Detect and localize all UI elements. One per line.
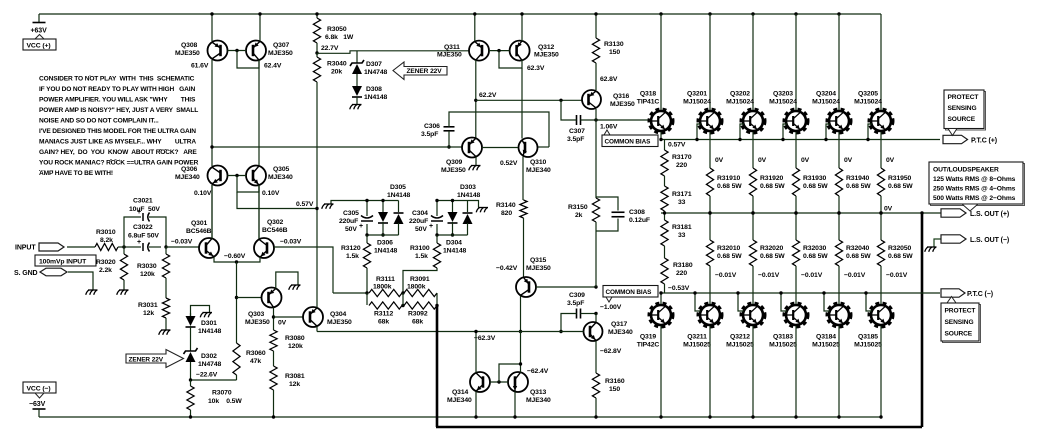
- svg-text:−0.03V: −0.03V: [280, 239, 302, 246]
- svg-text:−0.01V: −0.01V: [801, 272, 823, 279]
- svg-text:R3050: R3050: [327, 26, 347, 33]
- svg-text:Q308: Q308: [181, 42, 198, 49]
- wire Q302 base to feedback node: [274, 247, 333, 293]
- svg-text:−62.8V: −62.8V: [600, 348, 622, 355]
- wire Q303 emitter to ground: [276, 272, 298, 289]
- wire R3081 to rail: [273, 390, 275, 417]
- resistor R3010: [95, 243, 118, 250]
- wire R3140 to Q315: [523, 218, 525, 277]
- svg-text:Q3204: Q3204: [816, 91, 836, 98]
- ground Q309: [477, 166, 480, 171]
- svg-text:R3130: R3130: [604, 41, 624, 48]
- port P.T.C (+): [943, 135, 968, 143]
- transistor Q308: [208, 41, 228, 61]
- wire +63V top rail: [39, 13, 881, 15]
- svg-text:R3181: R3181: [672, 224, 692, 231]
- svg-text:SENSING: SENSING: [948, 105, 977, 112]
- wire collector Q319 to -63V rail: [660, 326, 662, 417]
- svg-text:R3040: R3040: [327, 61, 347, 68]
- capacitor C307: [576, 115, 578, 125]
- svg-text:1N4148: 1N4148: [374, 248, 398, 255]
- svg-text:Q314: Q314: [452, 389, 469, 396]
- svg-text:R3092: R3092: [408, 311, 428, 318]
- svg-text:MJE350: MJE350: [610, 101, 635, 108]
- svg-text:+: +: [429, 223, 433, 230]
- svg-text:Q3202: Q3202: [730, 91, 750, 98]
- wire Q305 diode link: [237, 176, 259, 193]
- svg-text:Q3185: Q3185: [858, 334, 878, 341]
- svg-text:D304: D304: [446, 240, 462, 247]
- wire Q306-Q305 bases: [228, 175, 247, 177]
- svg-text:Q3205: Q3205: [858, 91, 878, 98]
- wire node B to Q301 base: [166, 246, 199, 248]
- power flag VCC (-): [23, 382, 56, 393]
- wire PTC+ base rail: [661, 139, 940, 141]
- resistor R3111: [369, 289, 402, 296]
- wire R31930 to bus: [795, 196, 797, 213]
- resistor R3050: [316, 14, 318, 18]
- svg-text:−62.3V: −62.3V: [474, 335, 496, 342]
- svg-text:S. GND: S. GND: [14, 270, 38, 277]
- svg-text:MJE350: MJE350: [526, 265, 551, 272]
- svg-text:1800k: 1800k: [373, 284, 392, 291]
- resistor R3060: [233, 343, 240, 375]
- svg-text:Q319: Q319: [640, 334, 657, 341]
- svg-text:R3081: R3081: [285, 373, 305, 380]
- transistor Q311: [469, 41, 489, 61]
- svg-text:1N4148: 1N4148: [198, 328, 222, 335]
- wire collector Q3204 to +63V rail: [837, 12, 840, 15]
- wire output bus thick: [436, 306, 439, 428]
- svg-text:R31950: R31950: [888, 175, 912, 182]
- transistor Q3205: [870, 110, 893, 133]
- svg-text:Q305: Q305: [273, 166, 290, 173]
- wire Q314 diode link: [499, 364, 521, 382]
- svg-text:P.T.C (−): P.T.C (−): [967, 291, 993, 298]
- resistor R32030: [792, 240, 799, 266]
- transistor Q306: [208, 166, 228, 186]
- capacitor C3021: [124, 217, 141, 247]
- wire Q303 collector: [273, 308, 275, 331]
- wire R32020 to Q3212: [752, 266, 754, 304]
- wire input to R3010: [67, 246, 95, 248]
- svg-text:0.12uF: 0.12uF: [629, 217, 650, 224]
- diode D308: [352, 86, 362, 96]
- svg-text:120k: 120k: [288, 343, 303, 350]
- capacitor C308: [596, 197, 618, 211]
- wire emitter resistor R32040 from bus: [838, 213, 840, 240]
- wire R3120 to feedback node: [366, 268, 368, 293]
- transistor Q3202: [742, 110, 765, 133]
- svg-text:Q313: Q313: [530, 389, 547, 396]
- svg-text:8.2k: 8.2k: [100, 237, 113, 244]
- resistor R3081: [270, 366, 277, 390]
- port L.S. OUT (+): [941, 209, 966, 217]
- svg-text:VCC (+): VCC (+): [27, 43, 51, 50]
- svg-text:D306: D306: [377, 240, 393, 247]
- wire -63V bottom rail: [39, 416, 881, 418]
- transistor Q3183: [785, 304, 808, 327]
- resistor R3140: [520, 200, 527, 218]
- label PROTECT SENSING SOURCE upper: [946, 92, 986, 131]
- arrow label ZENER 22V lower: [126, 350, 184, 368]
- wire Q318 emitter stub: [660, 132, 662, 140]
- arrow label ZENER 22V upper: [393, 62, 447, 80]
- resistor R31930: [792, 168, 799, 196]
- svg-text:0.68 5W: 0.68 5W: [717, 253, 742, 260]
- port S. GND: [40, 268, 67, 276]
- wire R3080 to R3081: [273, 351, 275, 366]
- wire Q307 emitter to rail: [259, 14, 261, 41]
- svg-text:MJE350: MJE350: [268, 50, 293, 57]
- transistor Q312: [510, 41, 530, 61]
- capacitor C3022: [129, 246, 141, 248]
- wire Q313-Q314 bases: [490, 381, 508, 383]
- svg-text:TIP42C: TIP42C: [637, 342, 660, 349]
- svg-text:POWER AMPLIFIER. YOU WILL ASK: POWER AMPLIFIER. YOU WILL ASK "WHY THIS: [39, 97, 196, 104]
- wire C307 left hook: [561, 100, 577, 120]
- svg-text:C3021: C3021: [133, 198, 153, 205]
- svg-text:0.68 5W: 0.68 5W: [760, 183, 785, 190]
- wire Q315 emitter down: [520, 296, 522, 332]
- svg-text:220: 220: [676, 162, 687, 169]
- svg-text:0.68 5W: 0.68 5W: [888, 183, 913, 190]
- svg-text:R3070: R3070: [212, 390, 232, 397]
- transistor Q315: [516, 277, 536, 297]
- transistor Q3184: [828, 304, 851, 327]
- svg-text:220uF: 220uF: [339, 218, 358, 225]
- wire collector Q318 to +63V rail: [659, 12, 662, 15]
- svg-text:0V: 0V: [715, 157, 724, 164]
- wire base stub Q3202: [740, 124, 744, 140]
- svg-text:−0.53V: −0.53V: [668, 285, 690, 292]
- svg-text:C306: C306: [424, 123, 440, 130]
- port P.T.C (-): [941, 289, 965, 297]
- transistor Q303: [262, 288, 282, 308]
- wire R31950 to bus: [880, 196, 882, 213]
- svg-text:MJE340: MJE340: [268, 174, 293, 181]
- node B junction: [164, 245, 167, 248]
- wire R32040 to Q3184: [838, 266, 840, 304]
- wire 62.2V node to Q316 base: [476, 99, 582, 101]
- svg-text:3.5pF: 3.5pF: [567, 136, 584, 143]
- svg-text:R31930: R31930: [803, 175, 827, 182]
- svg-text:IF YOU DO NOT READY TO PLAY WI: IF YOU DO NOT READY TO PLAY WITH HIGH GA…: [39, 86, 195, 93]
- svg-text:PROTECT: PROTECT: [945, 308, 976, 315]
- wire Q308 emitter to rail: [211, 14, 213, 41]
- ground R3031: [167, 330, 170, 335]
- wire base rail Q309/Q310: [212, 146, 462, 148]
- wire Q308-Q307 bases: [228, 50, 247, 52]
- svg-text:50V: 50V: [415, 226, 427, 233]
- wire emitter resistor R32010 from bus: [709, 213, 711, 240]
- svg-text:150: 150: [609, 386, 620, 393]
- ground D308: [358, 105, 361, 110]
- label OUT/LOUDSPEAKER box: [931, 164, 1025, 206]
- transistor Q3201: [699, 110, 722, 133]
- transistor Q305: [246, 166, 266, 186]
- capacitor C306: [444, 126, 455, 128]
- resistor R3160: [592, 373, 599, 398]
- svg-text:MJ15024: MJ15024: [769, 99, 797, 106]
- svg-text:100mVp INPUT: 100mVp INPUT: [39, 259, 87, 266]
- svg-text:R3030: R3030: [137, 263, 157, 270]
- svg-text:C308: C308: [629, 209, 645, 216]
- svg-text:PROTECT: PROTECT: [948, 94, 979, 101]
- svg-text:0V: 0V: [278, 320, 287, 327]
- svg-text:125 Watts RMS @ 8−Ohms: 125 Watts RMS @ 8−Ohms: [933, 176, 1016, 183]
- svg-text:R3100: R3100: [410, 245, 430, 252]
- resistor R3070: [190, 380, 192, 386]
- svg-text:C305: C305: [343, 210, 359, 217]
- wire C309 left hook: [561, 314, 577, 332]
- wire R3171 to bus: [664, 211, 666, 213]
- resistor R3130: [595, 14, 597, 38]
- wire LTP tail: [214, 257, 260, 262]
- svg-text:CONSIDER TO NOT PLAY WITH TH: CONSIDER TO NOT PLAY WITH THIS SCHEMATIC: [39, 76, 195, 83]
- wire collector Q3211 to -63V rail: [709, 326, 711, 417]
- svg-text:Q312: Q312: [538, 44, 555, 51]
- svg-text:+: +: [137, 239, 141, 246]
- wire emitter Q3203 down: [795, 132, 797, 168]
- svg-text:6.8k 1W: 6.8k 1W: [325, 34, 354, 41]
- svg-text:R3171: R3171: [672, 191, 692, 198]
- svg-text:1N4148: 1N4148: [443, 248, 467, 255]
- svg-text:0.68 5W: 0.68 5W: [846, 183, 871, 190]
- svg-text:61.6V: 61.6V: [191, 63, 209, 70]
- svg-text:R31920: R31920: [760, 175, 784, 182]
- svg-text:MJ15024: MJ15024: [812, 99, 840, 106]
- svg-text:MJE340: MJE340: [447, 397, 472, 404]
- svg-text:YOU ROCK MANIAC? ROCK ==ULTRA: YOU ROCK MANIAC? ROCK ==ULTRA GAIN POWER: [39, 160, 199, 167]
- svg-text:C304: C304: [412, 210, 428, 217]
- resistor R3030: [165, 247, 167, 254]
- wire Q304 collector to output line: [316, 327, 318, 332]
- ground C305 network: [330, 204, 333, 209]
- resistor R3020: [123, 247, 125, 254]
- svg-text:Q3183: Q3183: [773, 334, 793, 341]
- resistor R31940: [835, 168, 842, 196]
- wire Q311 collector down to Q309: [475, 60, 477, 138]
- wire base stub Q3205: [868, 124, 872, 140]
- svg-text:3.5pF: 3.5pF: [421, 131, 438, 138]
- svg-text:0.68 5W: 0.68 5W: [803, 253, 828, 260]
- svg-text:62.4V: 62.4V: [264, 63, 282, 70]
- wire collector Q3203 to +63V rail: [794, 12, 797, 15]
- svg-text:−0.03V: −0.03V: [171, 239, 193, 246]
- wire emitter resistor R32030 from bus: [795, 213, 797, 240]
- wire collector Q3202 to +63V rail: [751, 12, 754, 15]
- svg-text:0.10V: 0.10V: [262, 190, 280, 197]
- svg-text:D307: D307: [366, 61, 382, 68]
- zener diode D307: [350, 60, 364, 66]
- wire bias column to Q317: [595, 314, 597, 323]
- wire Q305 to Q302: [258, 185, 260, 239]
- wire Q311 emitter to rail: [474, 14, 476, 41]
- svg-text:Q310: Q310: [530, 159, 547, 166]
- svg-text:MJE350: MJE350: [327, 319, 352, 326]
- transistor Q3203: [785, 110, 808, 133]
- transistor Q3212: [742, 304, 765, 327]
- svg-text:0V: 0V: [758, 157, 767, 164]
- svg-text:MJ15024: MJ15024: [726, 99, 754, 106]
- svg-text:120k: 120k: [140, 271, 155, 278]
- svg-text:Q3203: Q3203: [773, 91, 793, 98]
- wire Q315 base to bias column: [536, 286, 596, 288]
- svg-text:−0.01V: −0.01V: [758, 272, 780, 279]
- port INPUT: [39, 243, 64, 251]
- svg-text:D303: D303: [460, 184, 476, 191]
- diode D303: [452, 201, 454, 213]
- wire S.GND to ground: [68, 272, 93, 290]
- svg-text:COMMON BIAS: COMMON BIAS: [606, 289, 653, 296]
- wire base stub Q3212 lower: [738, 293, 744, 311]
- wire R32030 to Q3183: [795, 266, 797, 304]
- wire base stub Q3203: [783, 124, 787, 140]
- svg-text:0.68 5W: 0.68 5W: [846, 253, 871, 260]
- resistor R3080: [270, 330, 277, 351]
- wire LS OUT+ bus: [661, 212, 941, 214]
- resistor R3170: [664, 140, 666, 151]
- svg-text:C309: C309: [569, 292, 585, 299]
- ground S.GND: [94, 290, 97, 295]
- wire C304 network bottom: [437, 234, 468, 236]
- svg-text:0V: 0V: [884, 206, 893, 213]
- svg-text:MJ15024: MJ15024: [854, 99, 882, 106]
- svg-text:BC546B: BC546B: [186, 228, 212, 235]
- svg-text:62.2V: 62.2V: [479, 92, 497, 99]
- wire R3010 to node A: [118, 246, 129, 248]
- svg-text:R3031: R3031: [138, 302, 158, 309]
- svg-text:R3060: R3060: [246, 350, 266, 357]
- wire D302 to node: [190, 362, 192, 380]
- svg-text:1N4148: 1N4148: [387, 192, 411, 199]
- svg-text:SOURCE: SOURCE: [948, 116, 976, 123]
- svg-text:Q3201: Q3201: [687, 91, 707, 98]
- wire VAS output line -62.3V: [317, 331, 584, 333]
- svg-text:250 Watts RMS @ 4−Ohms: 250 Watts RMS @ 4−Ohms: [933, 186, 1016, 193]
- wire Q307 collector down: [258, 60, 260, 166]
- svg-text:MJ15025: MJ15025: [769, 342, 797, 349]
- wire node to D307 and Q311 base: [317, 51, 469, 54]
- wire Q307 diode link: [237, 51, 259, 69]
- wire collector Q3212 to -63V rail: [752, 326, 754, 417]
- svg-text:R3112: R3112: [374, 311, 393, 318]
- ground L.S. OUT (-): [933, 247, 936, 252]
- wire Q303 to Q304 base: [274, 316, 304, 318]
- wire Q301 collector: [211, 185, 213, 239]
- svg-text:Q317: Q317: [611, 321, 628, 328]
- svg-text:D305: D305: [390, 184, 406, 191]
- resistor R32050: [877, 240, 884, 266]
- wire base stub Q3184 lower: [824, 293, 830, 311]
- diode D306: [398, 201, 400, 213]
- wire R32010 to Q3211: [709, 266, 711, 304]
- diode D305: [382, 201, 384, 213]
- label PROTECT SENSING SOURCE lower: [947, 297, 956, 304]
- svg-text:MJE350: MJE350: [245, 319, 270, 326]
- wire Q312 collector down to Q310: [521, 68, 523, 139]
- svg-text:C307: C307: [569, 128, 585, 135]
- wire R3030 to R3031: [165, 278, 167, 298]
- svg-text:ZENER 22V: ZENER 22V: [129, 356, 164, 363]
- svg-text:R3170: R3170: [672, 154, 692, 161]
- svg-text:3.5pF: 3.5pF: [567, 300, 584, 307]
- wire collector Q3201 to +63V rail: [708, 12, 711, 15]
- svg-text:Q303: Q303: [248, 311, 265, 318]
- resistor R3171: [661, 186, 668, 211]
- svg-text:MJ15025: MJ15025: [854, 342, 882, 349]
- svg-text:0V: 0V: [844, 157, 853, 164]
- svg-text:62.3V: 62.3V: [527, 65, 545, 72]
- svg-text:12k: 12k: [289, 381, 300, 388]
- wire Q319 emitter stub: [660, 293, 662, 304]
- ground D301: [208, 313, 211, 318]
- transistor Q313: [508, 372, 528, 392]
- svg-text:10uF 50V: 10uF 50V: [129, 206, 160, 213]
- wire 0.57V node link: [237, 192, 317, 209]
- svg-text:33: 33: [678, 199, 686, 206]
- wire Q314 collector up: [475, 332, 477, 373]
- port L.S. OUT (-): [934, 239, 941, 247]
- svg-text:−0.60V: −0.60V: [224, 253, 246, 260]
- resistor R31910: [706, 168, 713, 196]
- svg-text:MJE350: MJE350: [441, 167, 466, 174]
- wire base stub Q3211 lower: [695, 293, 701, 311]
- svg-text:20k: 20k: [331, 69, 342, 76]
- svg-text:1.06V: 1.06V: [600, 124, 618, 131]
- label COMMON BIAS upper: [604, 130, 610, 135]
- wire emitter Q3204 down: [838, 132, 840, 168]
- capacitor C309: [576, 309, 578, 319]
- svg-text:Q3212: Q3212: [730, 334, 750, 341]
- transistor Q316: [582, 90, 601, 109]
- wire C305 network bottom: [367, 234, 399, 236]
- capacitor C305: [366, 201, 368, 217]
- wire base stub Q3204: [826, 124, 830, 140]
- resistor R3150 / capacitor C308 parallel: [595, 120, 597, 198]
- resistor R3031: [162, 298, 169, 318]
- svg-text:−63V: −63V: [29, 401, 46, 408]
- wire D301 to D302: [190, 326, 192, 351]
- wire R32050 to Q3185: [880, 266, 882, 304]
- svg-text:0.68 5W: 0.68 5W: [760, 253, 785, 260]
- svg-text:0.52V: 0.52V: [500, 160, 518, 167]
- svg-text:MJ15024: MJ15024: [683, 99, 711, 106]
- svg-text:R3010: R3010: [96, 229, 116, 236]
- resistor R3092: [404, 302, 437, 309]
- resistor R31950: [877, 168, 884, 196]
- wire C307 to Q318 base: [581, 119, 650, 121]
- resistor R32040: [835, 240, 842, 266]
- wire Q310 emitter down to R3140: [522, 157, 524, 201]
- resistor R3100: [436, 235, 438, 243]
- resistor R31920: [749, 168, 756, 196]
- wire emitter Q3205 down: [880, 132, 882, 168]
- svg-text:L.S. OUT (−): L.S. OUT (−): [970, 237, 1009, 244]
- svg-text:Q309: Q309: [446, 159, 463, 166]
- svg-text:SENSING: SENSING: [945, 319, 974, 326]
- svg-text:ZENER 22V: ZENER 22V: [407, 68, 443, 75]
- wire feedback node left: [333, 292, 367, 294]
- transistor Q3204: [828, 110, 851, 133]
- capacitor C304: [436, 201, 438, 217]
- wire Q313 emitter to rail: [514, 392, 516, 418]
- wire D308 to ground: [356, 97, 358, 105]
- svg-text:33: 33: [678, 232, 686, 239]
- transistor Q310: [519, 138, 538, 157]
- svg-text:VCC (−): VCC (−): [27, 386, 51, 393]
